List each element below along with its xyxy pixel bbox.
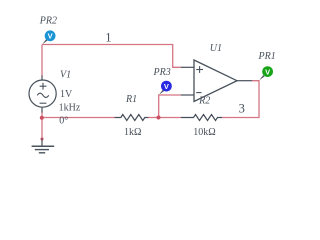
wire net 0 bottom horizontal left [42, 117, 115, 119]
svg-text:V: V [164, 82, 169, 91]
svg-text:1kΩ: 1kΩ [124, 127, 141, 138]
svg-text:1: 1 [105, 30, 111, 44]
svg-text:PR1: PR1 [258, 51, 276, 62]
probe PR1 [259, 66, 273, 80]
svg-text:R2: R2 [198, 96, 210, 107]
voltage source V1 [29, 76, 56, 113]
wire R1 to R2 [148, 117, 181, 119]
probe PR3 [159, 81, 172, 95]
svg-text:PR2: PR2 [39, 15, 57, 26]
svg-text:3: 3 [239, 101, 245, 115]
junction R1-R2 node [157, 116, 161, 120]
resistor R1 [115, 115, 149, 121]
svg-text:V: V [48, 32, 53, 41]
wire V1 bottom [41, 112, 43, 141]
resistor R2 [181, 115, 222, 121]
probe PR2 [42, 30, 55, 44]
junction V1-ground [40, 116, 44, 120]
svg-text:V: V [265, 67, 270, 76]
wire inverting input [159, 95, 181, 118]
ground [32, 140, 55, 153]
svg-text:1V: 1V [60, 89, 73, 100]
op-amp U1 [181, 60, 252, 102]
junction ground pin [41, 138, 44, 141]
svg-text:PR3: PR3 [153, 67, 171, 78]
wire R2 to output corner [222, 81, 259, 118]
svg-text:10kΩ: 10kΩ [193, 127, 215, 138]
svg-text:1kHz: 1kHz [59, 103, 81, 114]
wire V1 top [41, 45, 43, 77]
svg-text:0°: 0° [59, 115, 68, 126]
svg-text:V1: V1 [60, 69, 71, 80]
svg-text:U1: U1 [210, 43, 222, 54]
svg-text:R1: R1 [125, 94, 137, 105]
wire net 1 top [42, 45, 181, 68]
